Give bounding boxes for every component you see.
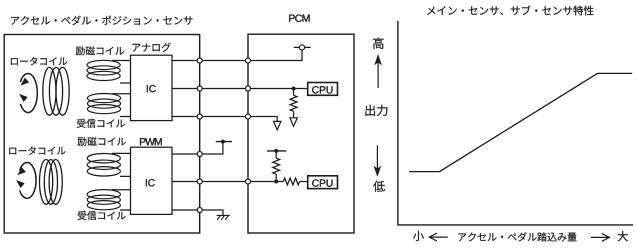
rotor coil 1 windings bbox=[43, 67, 56, 115]
label: アナログ bbox=[132, 43, 170, 52]
resistor R1 (pull-down at CPU1) bbox=[293, 89, 295, 96]
label: アクセル・ペダル踏込み量 bbox=[458, 232, 576, 241]
down arrow (low) bbox=[376, 145, 378, 169]
rotor coil 2 rotation arrow bbox=[20, 163, 36, 199]
label: 小 bbox=[413, 231, 424, 241]
label: 励磁コイル (lower) bbox=[78, 137, 126, 146]
open arrow below R1 bbox=[290, 118, 297, 127]
terminals on sensor box edge bbox=[197, 58, 202, 63]
label PWM bbox=[140, 138, 162, 145]
label: 高 bbox=[373, 38, 384, 49]
wire: IC2 pin1 to supply bar bbox=[172, 142, 223, 154]
IC U2 (PWM) box bbox=[131, 147, 173, 214]
supply bar above R2 bbox=[267, 150, 286, 152]
CPU box 1 bbox=[308, 83, 338, 96]
label: 励磁コイル (upper) bbox=[76, 46, 124, 55]
label IC (U2) bbox=[146, 179, 155, 186]
wire: IC2 pin3 to chassis ground bbox=[172, 210, 223, 215]
label PCM bbox=[289, 15, 309, 22]
up arrow (high) bbox=[377, 62, 379, 88]
wire: receiver coil 2 to IC pins bbox=[112, 190, 131, 210]
left arrow (small) bbox=[429, 233, 447, 241]
junction dot on CPU1 wire bbox=[292, 87, 296, 91]
rotor coil 2 windings bbox=[40, 160, 53, 205]
label: 受信コイル (lower) bbox=[78, 211, 126, 220]
CPU box 2 bbox=[308, 176, 338, 189]
label CPU (upper) bbox=[312, 86, 332, 93]
receiver coil 2 (受信コイル) bbox=[87, 190, 120, 199]
excitation coil 1 (励磁コイル) bbox=[87, 60, 120, 69]
resistor R3 (series to CPU2) bbox=[283, 178, 299, 185]
graph Y axis bbox=[397, 21, 399, 225]
terminals on PCM box edge bbox=[246, 58, 251, 63]
wire: IC1 pin3 into PCM to arrow bbox=[172, 117, 277, 122]
label: 低 bbox=[373, 181, 385, 192]
graph X axis bbox=[397, 224, 633, 226]
rotor coil 1 rotation arrow bbox=[20, 74, 37, 113]
excitation coil 2 (励磁コイル) bbox=[87, 154, 120, 163]
label: ロータコイル (upper) bbox=[11, 57, 67, 65]
label: 受信コイル (upper) bbox=[77, 119, 125, 128]
chassis ground (sensor return) bbox=[217, 215, 230, 219]
junction dot on wire B2 bbox=[274, 180, 278, 184]
IC U1 (analog) box bbox=[131, 55, 173, 120]
label CPU (lower) bbox=[312, 179, 332, 186]
graph title: メイン・センサ、サブ・センサ特性 bbox=[427, 6, 593, 16]
label IC (U1) bbox=[147, 85, 156, 92]
supply bar (channel B feed) bbox=[216, 141, 232, 143]
wire: IC1 pin1 to PCM switch node bbox=[172, 50, 302, 61]
wire: IC1 pin2 to CPU1 bbox=[172, 88, 308, 90]
sensor outer box (アクセル・ペダル・ポジション・センサ enclosure) bbox=[4, 35, 200, 234]
wire: excitation coil 1 to IC pins bbox=[112, 61, 131, 84]
wire: receiver coil 1 to IC pins bbox=[112, 94, 131, 117]
label: 出力 bbox=[366, 105, 388, 116]
open arrow (signal out) on wire3 bbox=[274, 121, 281, 129]
label: 大 bbox=[618, 231, 628, 241]
wire: IC2 pin2 to PCM bbox=[172, 181, 308, 183]
resistor R2 (pull-up) bbox=[275, 151, 277, 158]
wire: excitation coil 2 to IC pins bbox=[112, 153, 131, 176]
receiver coil 1 (受信コイル) bbox=[87, 94, 120, 103]
sensor output curve bbox=[409, 73, 632, 171]
label: アクセル・ペダル・ポジション・センサ bbox=[11, 16, 193, 25]
right arrow (large) bbox=[591, 234, 609, 242]
switch contact stubs and circle (PCM top) bbox=[294, 46, 311, 48]
label: ロータコイル (lower) bbox=[9, 147, 65, 155]
PCM box bbox=[248, 34, 354, 233]
